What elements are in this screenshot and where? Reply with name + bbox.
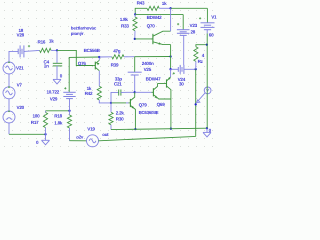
arrow Q79 emitter (131, 106, 135, 110)
wire R18 bottom (69, 128, 71, 141)
wire output net (111, 128, 207, 129)
node V29/R17/R18 junction (68, 110, 70, 112)
wire node to Q79 base (111, 102, 126, 104)
svg-text:Q69: Q69 (157, 102, 166, 107)
node emitter/output junction (170, 128, 172, 130)
wire R42 to node (99, 100, 111, 103)
capacitor V25 plate top (128, 71, 142, 73)
node ground-left junction (44, 133, 46, 135)
capacitor C21 plate left (118, 90, 120, 96)
svg-text:47g: 47g (113, 49, 121, 54)
wire R43 left corner (135, 8, 147, 14)
svg-text:Q70: Q70 (147, 24, 156, 29)
node R42/R30/C21/Q79 junction (110, 102, 112, 104)
svg-text:BC636/SIE: BC636/SIE (139, 110, 159, 115)
polarity mark V23 (177, 23, 179, 25)
wire Q76 emitter to rail (98, 57, 100, 60)
wire rail to Q70 emitter node (135, 56, 171, 58)
svg-text:30: 30 (179, 81, 184, 86)
battery V1 (201, 23, 215, 30)
battery V24 (178, 65, 184, 74)
node rail/Q70-emitter junction (169, 55, 171, 57)
wire top rail to V1 (206, 8, 208, 22)
sine source V19 (87, 135, 99, 147)
node R33/Q70-base junction (134, 38, 136, 40)
polarity mark V1 (199, 17, 201, 19)
node V25/C21/Q79-collector junction (134, 91, 136, 93)
node R16/C4/Q76base junction (56, 49, 58, 51)
svg-text:28: 28 (191, 30, 196, 35)
battery V23 (177, 30, 190, 36)
node Rz/V24 junction (195, 68, 197, 70)
svg-text:100: 100 (33, 113, 41, 118)
svg-text:V20: V20 (17, 105, 25, 110)
wire rail to V25 (134, 57, 136, 72)
wire R18 top (69, 111, 71, 115)
wire R33 top (134, 14, 136, 17)
resistor R43 (147, 6, 159, 10)
node Q76 emitter/rail junction (98, 56, 100, 58)
wire V28 to R16 (24, 50, 40, 51)
wire rail to V29 top (69, 57, 99, 92)
svg-text:V19: V19 (87, 126, 95, 131)
wire V20 down (8, 123, 10, 134)
wire R30 bottom (110, 125, 112, 130)
ground right (0) (203, 128, 211, 137)
wire R17 top (45, 111, 47, 113)
svg-text:V29: V29 (50, 97, 58, 102)
resistor R18 (67, 115, 71, 128)
transistor Q70 (BDW42) (151, 31, 171, 44)
wire R33 to Q70 base node (134, 31, 136, 39)
svg-text:V25: V25 (144, 67, 152, 72)
wire emitters down to output net (170, 99, 172, 129)
svg-text:R30: R30 (116, 117, 124, 122)
transistor Q69 (BDW47) (158, 77, 171, 99)
wire R30 top (110, 103, 112, 112)
wire V23 to V24 plate (183, 35, 185, 65)
wire V1 lead (206, 30, 208, 34)
node V24-left junction (169, 68, 171, 70)
polarity mark V24 (173, 72, 175, 74)
transistor Q-BC636 (152, 84, 171, 100)
wire out net (99, 136, 196, 140)
sine source V7 (3, 87, 15, 99)
wire C21 to V25 node (121, 91, 135, 93)
svg-text:R42: R42 (85, 91, 93, 96)
svg-text:R43: R43 (137, 0, 145, 5)
wire node to Q70 base (135, 38, 152, 40)
capacitor C4 plate top (53, 62, 62, 64)
svg-text:V7: V7 (17, 82, 23, 87)
wire R17 to V29/R18 node (46, 110, 70, 112)
capacitor C4 plate bottom (53, 65, 62, 67)
svg-text:Q76: Q76 (78, 61, 87, 66)
svg-text:R16: R16 (38, 40, 46, 45)
wire Q70 collector to top node (170, 8, 172, 31)
svg-text:V21: V21 (16, 65, 24, 70)
capacitor C21 plate right (120, 90, 122, 96)
node output/ground junction (206, 127, 208, 129)
svg-text:Q79: Q79 (139, 103, 148, 108)
transistor Q76 (BC556B) (93, 60, 99, 70)
svg-text:10.722: 10.722 (47, 90, 60, 95)
wire Q70 emitter to rail node (170, 45, 172, 57)
svg-text:V1: V1 (211, 15, 217, 20)
wire V28 to V21 (9, 51, 18, 62)
svg-text:pionýr: pionýr (71, 31, 84, 36)
wire R43 node to V23 (135, 13, 183, 15)
wire V29 to node (69, 99, 71, 111)
wire V25 to node (134, 75, 136, 92)
svg-text:V28: V28 (17, 33, 25, 38)
wire V7 to V20 (8, 99, 10, 111)
node Q79-emitter/output junction (134, 128, 136, 130)
node R43/R33 junction (134, 13, 136, 15)
svg-text:R39: R39 (111, 63, 119, 68)
wire top rail to V1 (171, 7, 208, 9)
resistor Rz (194, 47, 198, 62)
wire V1-line to Rz top (196, 45, 207, 47)
wire V1 down to ground (206, 34, 208, 129)
wire V20 to ground node (9, 133, 46, 135)
ground left (0) (42, 134, 50, 145)
resistor R17 (43, 112, 47, 127)
wire V24 to Rz node (184, 68, 196, 70)
arrow BC636 emitter (155, 96, 159, 100)
svg-text:1n: 1n (44, 64, 49, 69)
node R43/V1/Q70 junction (169, 7, 171, 9)
wire Rz bottom (195, 61, 197, 69)
svg-text:BDW42: BDW42 (147, 15, 163, 20)
battery V28 (18, 45, 24, 57)
svg-text:out: out (102, 132, 109, 137)
wire rail node to V24 node (170, 57, 172, 70)
resistor R42 (97, 86, 101, 100)
transistor Q79 (BC636/SIE) (129, 92, 136, 129)
wire Q79 base lead (126, 102, 129, 104)
svg-text:beztlarnovac: beztlarnovac (71, 25, 97, 30)
resistor R33 (133, 17, 137, 31)
svg-text:R17: R17 (31, 120, 39, 125)
svg-text:60: 60 (209, 33, 214, 38)
polarity mark V29 (64, 87, 66, 89)
wire node to V24 (171, 68, 179, 70)
resistor R30 (109, 112, 113, 125)
svg-text:BC556B: BC556B (84, 48, 101, 53)
svg-text:2.2k: 2.2k (116, 110, 125, 115)
wire R39 to bootstrap line (124, 56, 135, 58)
svg-text:o2v: o2v (76, 134, 84, 139)
svg-text:V23: V23 (190, 23, 198, 28)
svg-text:1.8k: 1.8k (120, 17, 129, 22)
wire node to C4 (56, 50, 58, 63)
node Rz-top/V1-line junction (206, 44, 208, 46)
svg-text:1k: 1k (162, 1, 167, 6)
wire Q76 collector to R42 (98, 71, 100, 87)
node probe attach (195, 103, 197, 105)
wire node to BC636 base (135, 91, 152, 93)
arrow BDW47 emitter (167, 77, 171, 81)
svg-text:BDW47: BDW47 (146, 77, 162, 82)
polarity mark V7 (8, 86, 10, 88)
polarity mark V20 (8, 111, 10, 113)
resistor R16 (40, 48, 52, 52)
ground C4 (0) (53, 66, 61, 84)
wire R17 bottom (45, 128, 47, 135)
polarity mark V28 (28, 45, 30, 47)
wire V21 to V7 (8, 74, 10, 87)
wire R43 to top node (159, 7, 170, 9)
polarity mark V21 (8, 62, 10, 64)
arrow Q76 emitter (96, 62, 100, 66)
source V20 (3, 111, 15, 123)
wire R18 to V19 (70, 140, 87, 142)
wire Rz node down to output (195, 69, 197, 136)
resistor R39 (112, 55, 124, 59)
wire R16 to node (51, 49, 57, 51)
wire rail node to R39 (99, 56, 112, 58)
svg-text:R33: R33 (121, 24, 129, 29)
wire to V23 top (182, 14, 184, 29)
svg-text:R18: R18 (54, 114, 62, 119)
arrow Q70 emitter (159, 42, 162, 45)
wire node to C21 (111, 92, 119, 103)
svg-text:1k: 1k (49, 38, 54, 43)
battery V29 (63, 92, 75, 98)
wire node to BDW47 (170, 69, 172, 77)
sine source V21 (3, 62, 15, 74)
svg-text:C21: C21 (114, 81, 122, 86)
capacitor V25 plate bottom (131, 74, 139, 76)
svg-text:1.8k: 1.8k (54, 120, 63, 125)
wire node to Q76 base (57, 50, 93, 65)
svg-text:2400n: 2400n (142, 61, 154, 66)
probe symbol (197, 87, 212, 103)
